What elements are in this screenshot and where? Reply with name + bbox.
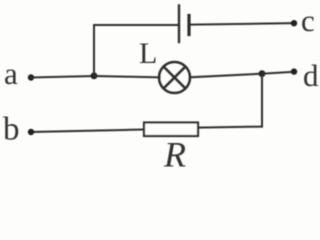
svg-text:b: b <box>3 112 20 148</box>
wire top rail to battery <box>94 24 178 26</box>
wire a to junction J1 <box>31 76 94 78</box>
svg-text:R: R <box>163 135 186 170</box>
battery B1 short plate <box>187 16 190 35</box>
node c <box>291 20 297 26</box>
resistor R body <box>144 123 198 137</box>
node a <box>28 74 34 80</box>
lamp L <box>159 62 190 93</box>
wire lamp right to junction J2 <box>190 74 262 78</box>
wire J1 to lamp left <box>94 76 160 77</box>
wire J2 down to bottom rail <box>261 74 263 127</box>
wire J2 to node d <box>262 72 294 74</box>
battery B1 long plate <box>178 6 180 43</box>
node d <box>291 68 297 74</box>
svg-text:a: a <box>4 56 18 91</box>
svg-text:c: c <box>301 3 315 38</box>
junction J1 <box>91 72 98 79</box>
junction J2 <box>259 70 266 77</box>
wire bottom rail corner to resistor right <box>198 127 262 128</box>
svg-text:d: d <box>303 58 319 93</box>
wire J1 up to top rail <box>93 25 95 76</box>
node b <box>28 129 34 135</box>
wire resistor left to node b <box>31 130 144 133</box>
wire battery to node c <box>191 23 295 24</box>
svg-text:L: L <box>139 37 157 70</box>
